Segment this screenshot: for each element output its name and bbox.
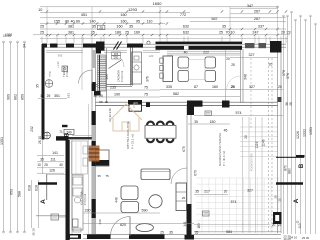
svg-text:45: 45 [224,129,228,133]
svg-text:160: 160 [120,13,126,17]
svg-text:111: 111 [50,157,55,161]
svg-text:161: 161 [67,93,71,98]
svg-text:P=3,5 m2: P=3,5 m2 [120,70,124,82]
svg-text:POCHOZI TER.: POCHOZI TER. [250,153,254,172]
svg-text:75: 75 [144,86,148,90]
svg-text:20: 20 [244,135,248,139]
svg-text:71: 71 [59,130,63,134]
svg-text:P = 40,6 m2: P = 40,6 m2 [222,150,226,166]
svg-text:679: 679 [182,146,186,152]
svg-text:267: 267 [254,17,260,21]
svg-text:1293: 1293 [128,7,138,12]
svg-text:34 10: 34 10 [290,235,298,239]
svg-text:348: 348 [244,74,248,80]
svg-text:25: 25 [160,231,164,235]
svg-text:230: 230 [85,209,91,213]
svg-text:327: 327 [247,189,253,193]
svg-text:567: 567 [211,17,217,21]
svg-text:B: B [299,163,305,168]
svg-text:376: 376 [286,73,290,79]
svg-text:25: 25 [47,94,51,98]
svg-text:25: 25 [99,94,103,98]
svg-text:451: 451 [81,13,87,17]
svg-text:40: 40 [70,19,74,23]
svg-text:20: 20 [274,195,278,199]
svg-text:58: 58 [99,100,103,104]
svg-text:P = 23,1 m2: P = 23,1 m2 [131,133,135,149]
svg-text:618: 618 [35,185,39,191]
svg-text:20: 20 [226,57,230,61]
svg-text:355: 355 [105,74,109,79]
svg-text:34: 34 [23,44,27,48]
svg-text:20: 20 [278,198,282,202]
svg-text:217: 217 [204,190,210,194]
svg-text:574: 574 [231,200,237,204]
svg-text:588: 588 [18,191,22,197]
svg-text:35: 35 [97,174,101,178]
svg-text:35: 35 [195,231,199,235]
svg-text:859: 859 [21,94,25,100]
svg-text:23: 23 [286,31,290,35]
svg-text:35: 35 [195,190,199,194]
svg-text:25: 25 [182,196,186,200]
svg-text:381: 381 [68,31,74,35]
svg-text:20: 20 [105,100,109,104]
svg-text:A: A [40,199,47,204]
svg-text:20: 20 [269,63,273,67]
svg-text:35 10: 35 10 [32,228,36,236]
svg-text:590: 590 [142,209,148,213]
svg-text:160: 160 [113,54,118,58]
svg-text:10: 10 [38,8,42,12]
svg-text:267: 267 [254,10,260,14]
svg-text:35: 35 [92,25,96,29]
svg-text:20: 20 [224,190,228,194]
svg-text:381: 381 [68,25,74,29]
svg-text:347: 347 [247,4,253,8]
svg-text:113: 113 [298,223,302,228]
svg-text:222: 222 [203,51,209,55]
svg-text:582: 582 [173,92,179,96]
svg-text:OBYTNA KUCHYNE: OBYTNA KUCHYNE [126,121,130,149]
svg-text:160: 160 [212,85,218,89]
svg-text:40: 40 [59,163,63,167]
svg-text:+1,30: +1,30 [56,61,60,68]
svg-text:160: 160 [134,31,140,35]
svg-text:25: 25 [125,31,129,35]
svg-text:235: 235 [110,86,116,90]
svg-text:1226: 1226 [296,131,300,139]
svg-text:35: 35 [194,120,198,124]
svg-text:376: 376 [146,76,150,82]
svg-text:376: 376 [282,70,286,76]
svg-text:87: 87 [194,85,198,89]
svg-text:141: 141 [183,221,187,227]
svg-text:75: 75 [105,174,109,178]
svg-text:670: 670 [194,170,198,176]
svg-text:141: 141 [52,151,58,155]
svg-text:653: 653 [10,189,14,195]
svg-text:247: 247 [252,31,258,35]
svg-text:160: 160 [120,19,126,23]
svg-text:P=4,5 m2: P=4,5 m2 [65,65,69,77]
svg-text:1351: 1351 [0,137,4,145]
svg-text:632: 632 [183,25,189,29]
svg-text:1116: 1116 [255,141,259,148]
svg-text:232: 232 [30,126,34,132]
svg-text:70: 70 [225,31,229,35]
svg-text:1331: 1331 [303,129,307,137]
svg-text:160: 160 [116,25,122,29]
svg-text:880: 880 [288,168,292,174]
svg-text:10: 10 [40,94,44,98]
svg-text:25: 25 [231,85,235,89]
svg-text:335: 335 [166,85,172,89]
svg-text:vstup: vstup [49,70,52,77]
svg-text:P=5,5 m2: P=5,5 m2 [83,193,87,205]
svg-text:10: 10 [93,94,97,98]
svg-text:35: 35 [222,25,226,29]
svg-text:A: A [293,198,300,203]
svg-text:25 36: 25 36 [302,236,310,240]
svg-text:B: B [64,132,71,137]
svg-text:327: 327 [249,85,255,89]
svg-text:969: 969 [7,94,11,100]
svg-text:95: 95 [136,19,140,23]
svg-text:25: 25 [40,25,44,29]
svg-text:35: 35 [169,231,173,235]
svg-text:183: 183 [197,223,201,229]
svg-text:26 10: 26 10 [38,136,42,144]
svg-text:584: 584 [226,230,232,234]
svg-text:862: 862 [14,94,18,100]
svg-text:1146: 1146 [262,139,266,146]
svg-text:60: 60 [76,19,80,23]
svg-text:40: 40 [184,51,188,55]
svg-text:327: 327 [249,53,255,57]
svg-text:ZADVERI: ZADVERI [117,70,121,82]
svg-text:448: 448 [115,197,119,203]
svg-text:75: 75 [144,93,148,97]
svg-text:20: 20 [281,31,285,35]
svg-text:KUCHYNA: KUCHYNA [80,191,84,205]
svg-text:180: 180 [115,31,121,35]
svg-text:618: 618 [28,185,32,191]
svg-text:26: 26 [289,102,293,106]
svg-text:365: 365 [58,54,63,58]
svg-text:1650: 1650 [153,1,163,6]
svg-text:140: 140 [89,19,95,23]
svg-text:330: 330 [98,219,102,224]
svg-text:20: 20 [278,85,282,89]
svg-text:150: 150 [210,120,216,124]
svg-text:25: 25 [44,163,48,167]
svg-text:10 25: 10 25 [3,34,11,38]
svg-text:20: 20 [272,223,276,227]
svg-text:120: 120 [149,54,154,58]
svg-text:155: 155 [54,19,60,23]
svg-text:25: 25 [219,31,223,35]
svg-text:1351: 1351 [309,127,313,135]
svg-text:351: 351 [54,94,60,98]
svg-text:110: 110 [147,19,153,23]
svg-text:10: 10 [37,163,41,167]
svg-text:772: 772 [180,13,186,17]
svg-text:337: 337 [258,25,264,29]
svg-text:25: 25 [231,63,235,67]
svg-text:25: 25 [99,26,103,30]
svg-text:35: 35 [36,84,40,88]
svg-text:632: 632 [183,31,189,35]
svg-text:25: 25 [40,31,44,35]
svg-text:574: 574 [236,111,242,115]
svg-text:820: 820 [120,223,126,227]
svg-text:126: 126 [49,169,55,173]
svg-text:23: 23 [278,223,282,227]
svg-text:190: 190 [114,93,120,97]
svg-text:35: 35 [40,157,44,161]
svg-text:35: 35 [129,25,133,29]
